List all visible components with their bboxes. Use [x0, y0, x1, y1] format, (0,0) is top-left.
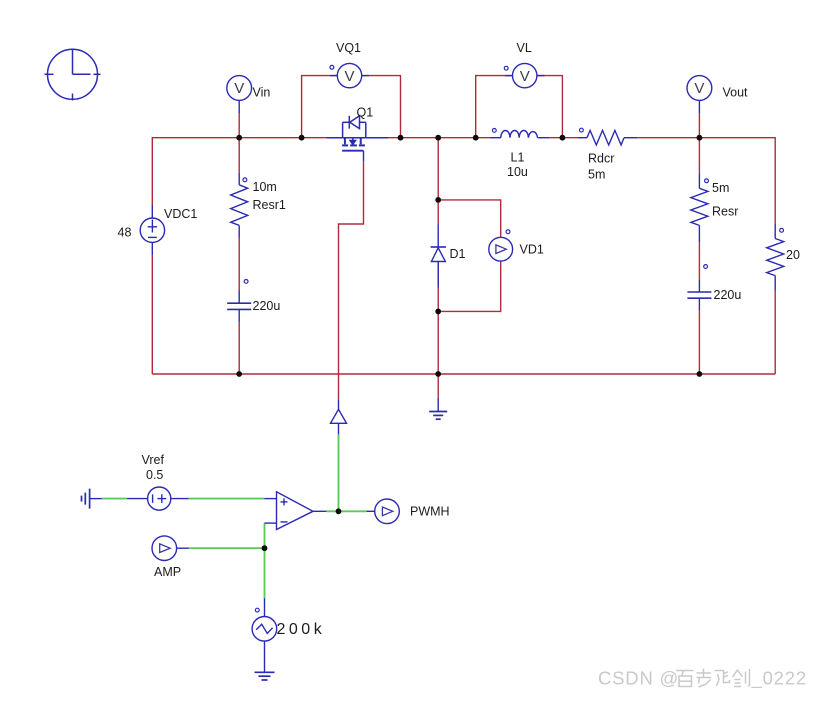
svg-text:10u: 10u — [507, 165, 528, 179]
svg-text:220u: 220u — [714, 288, 742, 302]
svg-text:AMP: AMP — [154, 565, 181, 579]
svg-text:V: V — [344, 68, 354, 85]
svg-text:5m: 5m — [588, 168, 605, 182]
svg-text:200k: 200k — [277, 621, 326, 638]
svg-text:Vref: Vref — [142, 453, 165, 467]
svg-text:V: V — [694, 80, 704, 97]
svg-text:Vin: Vin — [253, 86, 271, 100]
svg-text:Resr: Resr — [712, 205, 738, 219]
svg-text:VDC1: VDC1 — [164, 207, 197, 221]
svg-text:PWMH: PWMH — [410, 505, 450, 519]
svg-text:220u: 220u — [253, 299, 281, 313]
svg-text:V: V — [520, 68, 530, 85]
svg-text:Resr1: Resr1 — [253, 198, 286, 212]
svg-text:10m: 10m — [253, 180, 277, 194]
svg-text:VQ1: VQ1 — [336, 41, 361, 55]
svg-text:VL: VL — [517, 41, 532, 55]
svg-text:V: V — [234, 80, 244, 97]
svg-text:0.5: 0.5 — [146, 468, 163, 482]
svg-text:L1: L1 — [511, 151, 525, 165]
svg-text:48: 48 — [118, 226, 132, 240]
svg-text:5m: 5m — [712, 181, 729, 195]
svg-text:D1: D1 — [450, 247, 466, 261]
svg-text:_0222: _0222 — [751, 668, 807, 690]
svg-text:CSDN @: CSDN @ — [598, 668, 679, 689]
svg-text:Vout: Vout — [723, 86, 749, 100]
svg-text:20: 20 — [786, 248, 800, 262]
svg-text:Rdcr: Rdcr — [588, 152, 614, 166]
svg-text:Q1: Q1 — [357, 106, 374, 120]
svg-text:VD1: VD1 — [520, 243, 544, 257]
